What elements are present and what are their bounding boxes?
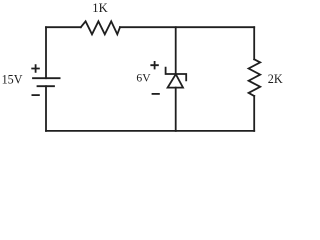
resistor R2 2K (load, right) — [249, 59, 261, 96]
wire top-left: battery + to 1K resistor — [46, 26, 81, 28]
zener diode D1: cathode bar with bent ends — [166, 68, 187, 81]
wire right: top rail down to 2K resistor — [253, 27, 255, 59]
wire: bottom rail up to battery negative — [45, 86, 47, 131]
zener plus sign — [151, 62, 158, 69]
svg-text:15V: 15V — [2, 73, 23, 87]
wire top-right: 1K resistor to node A and 2K resistor — [120, 26, 254, 28]
svg-text:6V: 6V — [136, 72, 151, 85]
wire bottom rail — [46, 130, 254, 132]
battery V1 long positive plate — [33, 77, 60, 79]
svg-text:2K: 2K — [268, 72, 283, 86]
wire: 2K resistor down to bottom rail — [253, 96, 255, 131]
resistor R1 1K (series, top) — [81, 21, 120, 34]
wire: battery positive up to top rail — [45, 27, 47, 78]
zener minus sign — [153, 93, 159, 95]
battery minus sign — [32, 94, 39, 96]
battery plus sign — [32, 65, 39, 72]
zener diode D1: anode triangle — [168, 74, 183, 87]
wire: zener anode down to bottom rail — [175, 88, 177, 131]
battery V1 short negative plate — [38, 85, 55, 87]
wire: node A down to zener cathode — [175, 27, 177, 74]
svg-text:1K: 1K — [92, 1, 107, 15]
